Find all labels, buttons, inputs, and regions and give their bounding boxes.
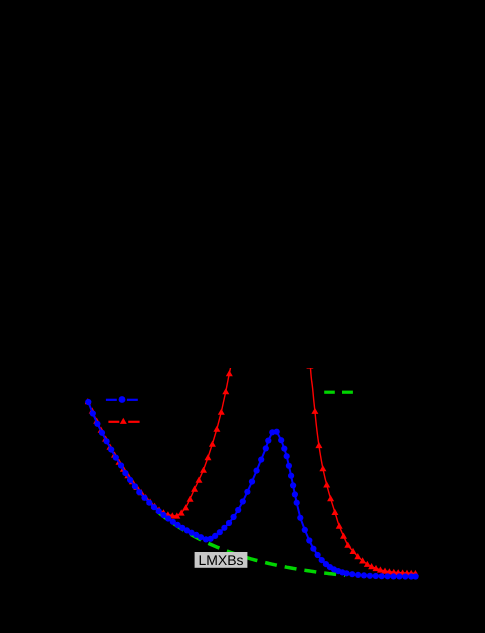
red curve line (right branch): [310, 367, 417, 573]
blue circle markers: [85, 399, 419, 580]
red clipped triangle at top of right branch: [306, 362, 313, 368]
red curve line (left branch): [88, 367, 231, 516]
legend green dashed entry: [324, 391, 353, 394]
red triangle markers left: [84, 370, 233, 518]
green dashed curve (LMXBs): [153, 508, 345, 575]
blue curve line: [88, 402, 415, 577]
red triangle markers right: [311, 408, 419, 576]
legend blue entry: [106, 396, 138, 403]
legend red entry: [108, 418, 139, 424]
svg-text:LMXBs: LMXBs: [198, 552, 243, 568]
LMXBs label box: [195, 552, 248, 568]
